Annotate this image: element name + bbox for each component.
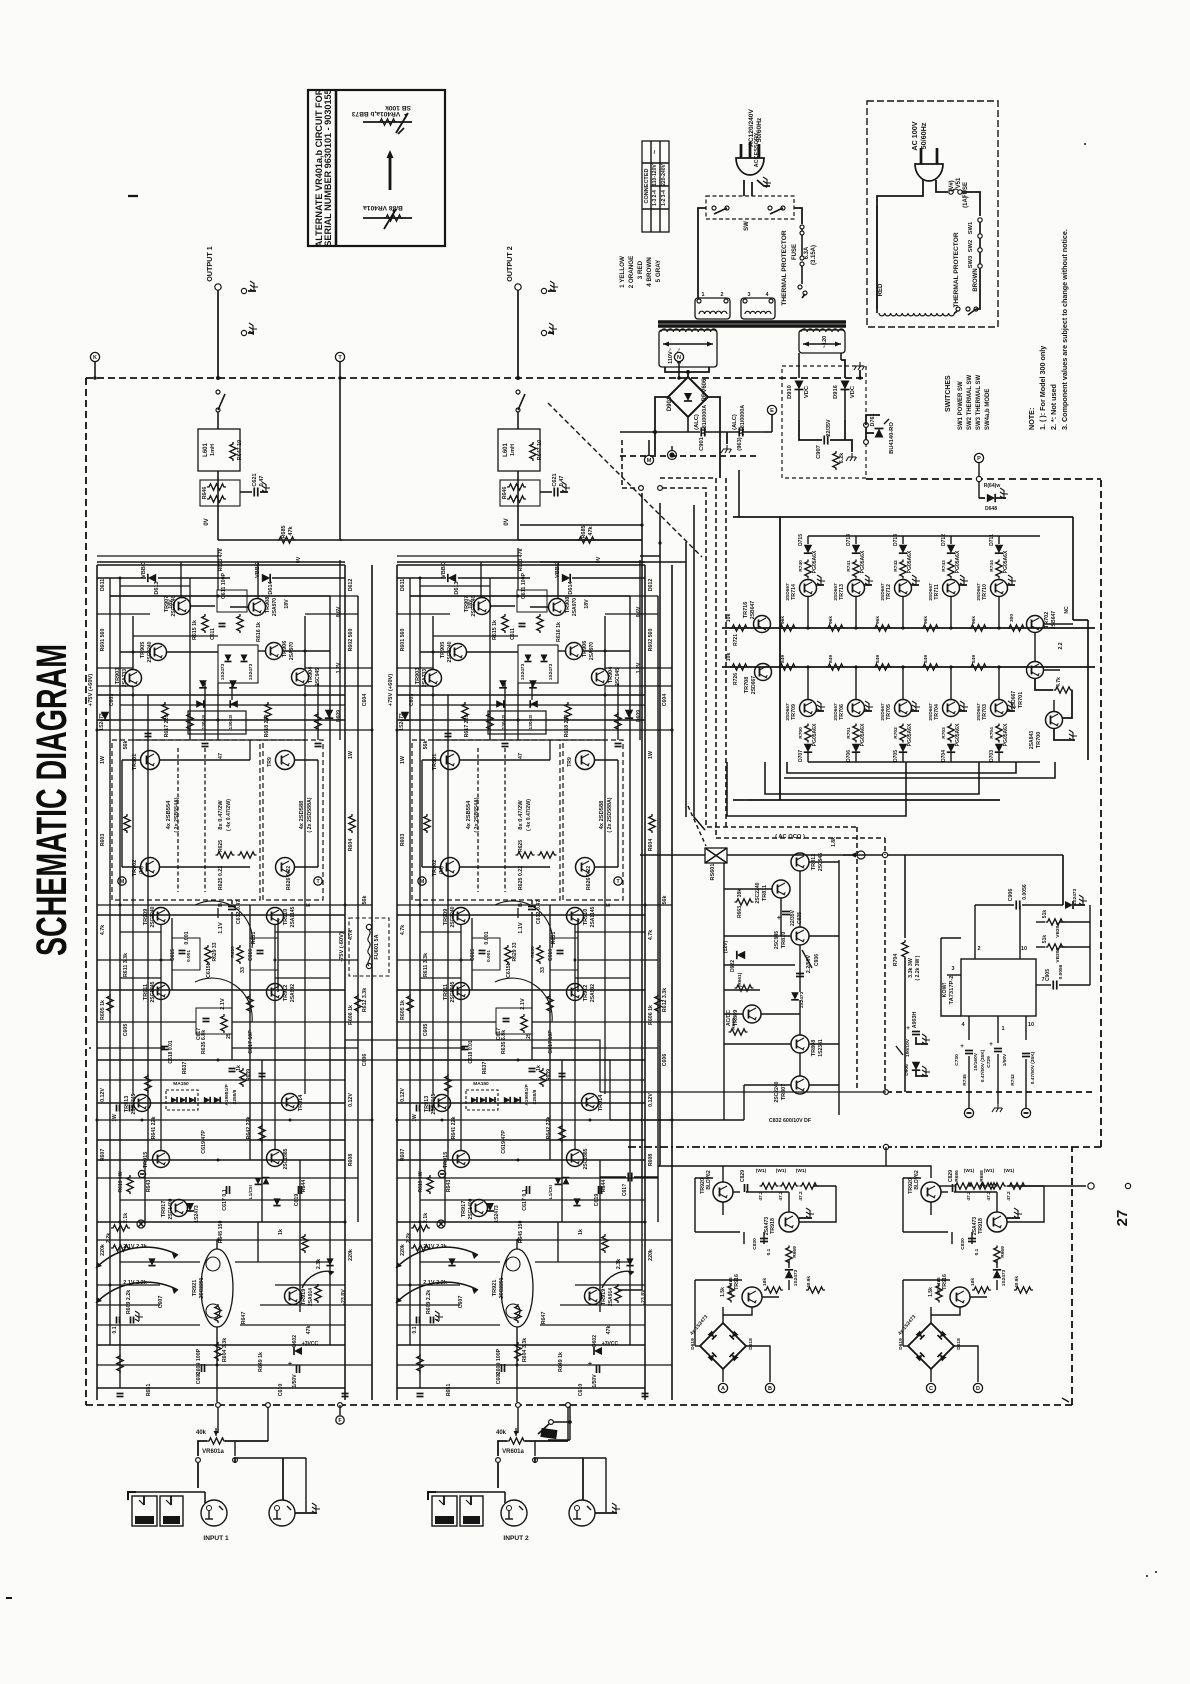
solid rail x642 <box>641 493 643 1177</box>
bias diode box <box>518 645 558 683</box>
svg-text:R704: R704 <box>989 727 995 739</box>
staircase wire 2 <box>765 762 979 794</box>
svg-text:R642 22k: R642 22k <box>546 1117 552 1140</box>
svg-text:FUSE: FUSE <box>963 182 969 198</box>
svg-text:( 4x 0.47/2W): ( 4x 0.47/2W) <box>526 799 532 831</box>
damping network R646 C621 <box>500 480 540 506</box>
resistor R730 on bus <box>778 625 797 631</box>
svg-text:C906: C906 <box>1008 889 1014 902</box>
svg-text:2SC1400: 2SC1400 <box>468 1198 474 1219</box>
svg-text:C619 47P: C619 47P <box>201 1130 207 1154</box>
staircase links lower <box>345 1040 600 1092</box>
diode D705 <box>899 744 907 752</box>
svg-text:R659: R659 <box>731 1018 737 1030</box>
test point minus <box>138 1170 145 1177</box>
svg-text:0.1: 0.1 <box>412 1326 418 1333</box>
diode D916 <box>840 353 842 360</box>
box1 terminal <box>418 877 426 885</box>
svg-text:2SA970: 2SA970 <box>572 598 578 616</box>
svg-text:TR714: TR714 <box>791 584 797 600</box>
svg-text:SW2 THERMAL SW: SW2 THERMAL SW <box>967 374 973 430</box>
transistor TR906b <box>566 643 583 660</box>
svg-text:10k: 10k <box>726 653 732 662</box>
transistor TR911b <box>453 983 470 1000</box>
rca jack 2 <box>569 1500 595 1526</box>
svg-text:C621: C621 <box>252 473 258 486</box>
resistor R734 on bus <box>969 625 988 631</box>
svg-text:1/50V: 1/50V <box>592 1374 598 1388</box>
svg-text:TR905: TR905 <box>140 642 146 659</box>
vertical rails channel <box>396 565 398 1400</box>
bottom resistor R604 <box>515 1342 521 1361</box>
diode TS2473 <box>486 1203 494 1211</box>
relay L601 <box>198 429 240 471</box>
top letter terminals <box>90 352 99 361</box>
diode quad box MA150 <box>466 1090 498 1110</box>
svg-text:TR906: TR906 <box>582 641 588 658</box>
svg-text:96k: 96k <box>780 616 786 624</box>
svg-text:22/35V: 22/35V <box>826 419 832 436</box>
svg-text:R641 22k: R641 22k <box>151 1117 157 1140</box>
svg-text:BLDV62: BLDV62 <box>914 1170 920 1189</box>
svg-text:TR920: TR920 <box>700 1178 706 1194</box>
svg-text:2SD667: 2SD667 <box>928 583 934 601</box>
svg-text:SW1: SW1 <box>968 221 974 234</box>
svg-text:INPUT 1: INPUT 1 <box>203 1535 229 1542</box>
transistor TR921 2SA473 <box>921 1182 941 1202</box>
dark terminal <box>668 451 677 460</box>
wire plug left to transformer <box>877 180 923 206</box>
box1 wires <box>422 759 441 761</box>
svg-text:220k: 220k <box>100 1244 106 1256</box>
svg-text:0.12V: 0.12V <box>100 1088 106 1102</box>
svg-text:0.1: 0.1 <box>112 1326 118 1333</box>
svg-text:( 2.2k 3W ): ( 2.2k 3W ) <box>915 955 921 980</box>
R708 resistor <box>1054 687 1073 693</box>
output box 1 dashed <box>412 740 560 900</box>
svg-text:C730: C730 <box>954 1054 960 1066</box>
row E wires <box>397 989 645 991</box>
svg-text:13043!: 13043! <box>228 714 234 729</box>
wire to bus2 <box>950 667 952 700</box>
thermal switch contact <box>955 310 958 313</box>
meter arc left 2 <box>96 1282 178 1303</box>
headphone jack symbol <box>128 1492 136 1500</box>
bias resistors <box>972 1287 991 1293</box>
diode TS2473 right <box>1065 901 1073 909</box>
svg-text:1.5k: 1.5k <box>720 1287 726 1297</box>
svg-text:A881/0000A: A881/0000A <box>740 405 746 435</box>
svg-text:D609: D609 <box>336 710 342 722</box>
svg-text:51k: 51k <box>1042 935 1048 944</box>
inset box alternate VR401 circuit <box>308 90 445 246</box>
svg-text:BLDV62: BLDV62 <box>706 1170 712 1189</box>
transistor TR916a <box>742 1287 762 1307</box>
svg-text:2.2: 2.2 <box>1058 642 1064 649</box>
diode ZD <box>993 1270 1001 1278</box>
svg-text:VR601a: VR601a <box>202 1449 224 1455</box>
transistor TR701 <box>1027 662 1044 679</box>
svg-text:R649 1k: R649 1k <box>258 1352 264 1372</box>
svg-text:0V: 0V <box>296 556 302 563</box>
transistor TR920 2SA473 <box>713 1182 733 1202</box>
svg-text:BROWN: BROWN <box>973 268 979 291</box>
box1 internal dashed columns <box>177 748 179 892</box>
wire horizontal y455 <box>620 431 660 433</box>
svg-text:4x 2SB554: 4x 2SB554 <box>466 800 472 830</box>
svg-text:10k: 10k <box>726 614 732 623</box>
outer dashed border right lower <box>1071 1147 1073 1405</box>
caps bottom left <box>416 1317 418 1324</box>
bus line 1 <box>722 627 1095 629</box>
terminal A <box>718 1383 727 1392</box>
svg-text:47k: 47k <box>288 525 294 535</box>
transistor TR915a <box>153 1151 170 1168</box>
svg-text:1/50V: 1/50V <box>1002 1053 1008 1066</box>
svg-text:VDC: VDC <box>850 386 856 398</box>
svg-text:849: 849 <box>780 655 786 663</box>
svg-text:MA150: MA150 <box>173 1081 189 1087</box>
svg-text:2SA992: 2SA992 <box>590 984 596 1002</box>
outer dashed border right upper <box>1100 480 1102 1147</box>
wire to bus2 <box>998 667 1000 700</box>
svg-text:TR910: TR910 <box>283 909 289 926</box>
diode bottom mid <box>273 1198 280 1205</box>
svg-text:( 2x 2SB554A): ( 2x 2SB554A) <box>474 797 480 832</box>
svg-text:2SC1845: 2SC1845 <box>450 981 456 1002</box>
svg-text:R635 6.8k: R635 6.8k <box>501 1030 507 1054</box>
extra horizontals <box>120 585 190 587</box>
svg-text:R608: R608 <box>348 1154 354 1167</box>
svg-text:849: 849 <box>971 655 977 663</box>
right unit feed <box>886 1166 931 1178</box>
jack symbol 2 <box>241 330 246 335</box>
output terminal OUTPUT 2 <box>515 284 521 290</box>
box1 terminal <box>118 877 126 885</box>
diode D703 <box>995 744 1003 752</box>
zener R742 <box>833 451 839 470</box>
svg-text:2SA914: 2SA914 <box>608 1288 614 1306</box>
solid rail x739 <box>738 470 740 517</box>
emitter ground <box>864 584 872 586</box>
diode D711 <box>995 545 1003 553</box>
transistor TR706 <box>848 700 865 717</box>
electrolytic C728 <box>1022 1053 1030 1055</box>
svg-text:R607: R607 <box>100 1149 106 1162</box>
svg-text:(W1): (W1) <box>756 1168 767 1174</box>
wire output vertical <box>217 290 219 378</box>
resistor rows mid cluster <box>735 985 754 991</box>
svg-text:0V: 0V <box>204 518 210 525</box>
svg-text:R631: R631 <box>251 932 257 945</box>
svg-text:4.7k: 4.7k <box>400 925 406 935</box>
box2 terminal <box>314 877 322 885</box>
svg-text:R641 22k: R641 22k <box>451 1117 457 1140</box>
svg-text:0.001: 0.001 <box>186 950 192 962</box>
svg-text:1.2V: 1.2V <box>636 662 642 673</box>
resistor R713 on bus2 <box>921 664 940 670</box>
wire y1092 left <box>600 1091 886 1093</box>
svg-text:C611 100P: C611 100P <box>221 572 227 599</box>
svg-text:R644: R644 <box>601 1180 607 1193</box>
svg-text:INPUT 2: INPUT 2 <box>503 1535 529 1542</box>
terminal P right top <box>974 453 983 462</box>
svg-text:R606 1k: R606 1k <box>348 1005 354 1025</box>
transistor TR700 <box>1046 712 1063 729</box>
svg-text:2SD667: 2SD667 <box>1011 691 1017 709</box>
svg-text:R726: R726 <box>733 673 739 685</box>
svg-text:A: A <box>721 1386 725 1392</box>
svg-text:1mH: 1mH <box>510 444 516 456</box>
svg-text:1W: 1W <box>648 751 654 759</box>
svg-text:10/160V: 10/160V <box>973 1052 979 1071</box>
rail dashed second <box>716 478 885 838</box>
svg-text:1S2473: 1S2473 <box>194 1205 200 1223</box>
svg-text:R626 0.22: R626 0.22 <box>286 866 292 890</box>
svg-text:47: 47 <box>218 753 224 759</box>
driver stage rails <box>110 595 330 597</box>
svg-text:25: 25 <box>526 1033 532 1039</box>
svg-text:110V~: 110V~ <box>668 347 674 364</box>
svg-text:(12V): (12V) <box>723 941 729 954</box>
transistor TR709 <box>800 700 817 717</box>
svg-text:0.001: 0.001 <box>184 931 190 944</box>
svg-text:R626 0.22: R626 0.22 <box>586 866 592 890</box>
svg-text:R742: R742 <box>893 560 899 572</box>
svg-text:2SA733: 2SA733 <box>422 669 428 687</box>
svg-text:R647 10: R647 10 <box>237 440 243 460</box>
svg-text:C907: C907 <box>816 445 822 459</box>
svg-text:4x 2SD588: 4x 2SD588 <box>599 800 605 830</box>
svg-text:0.1: 0.1 <box>974 1248 980 1255</box>
svg-text:2SD667: 2SD667 <box>751 676 757 694</box>
svg-text:R629 33: R629 33 <box>212 942 218 961</box>
svg-text:4.7k: 4.7k <box>648 930 654 940</box>
svg-text:( 2x 2SD588A): ( 2x 2SD588A) <box>607 797 613 832</box>
svg-text:TR917: TR917 <box>461 1201 467 1218</box>
wires right cluster <box>1043 623 1073 625</box>
nodes bottom border <box>216 1403 221 1408</box>
svg-text:C610: C610 <box>578 1384 584 1397</box>
svg-text:0.47: 0.47 <box>559 476 565 487</box>
connector block 1 <box>695 298 730 319</box>
svg-text:R(64)w: R(64)w <box>984 483 1001 489</box>
emitter ground <box>959 584 967 586</box>
svg-text:R616 1k: R616 1k <box>556 622 562 642</box>
cap C936 <box>796 973 804 975</box>
svg-text:C609 100P: C609 100P <box>496 1348 502 1375</box>
svg-text:TR919: TR919 <box>301 1289 307 1306</box>
bottom electrolytic C606 <box>596 1365 598 1373</box>
rca jack 2 <box>269 1500 295 1526</box>
dotted route diagonal 2 <box>688 806 706 846</box>
dashed vertical B <box>884 838 886 855</box>
svg-text:B/88 VR401a: B/88 VR401a <box>363 204 403 211</box>
extra small caps <box>445 733 452 735</box>
ground supply <box>845 440 852 452</box>
svg-text:1/50V: 1/50V <box>292 1374 298 1388</box>
svg-text:TR908: TR908 <box>565 597 571 614</box>
svg-text:2SC2291: 2SC2291 <box>199 1277 205 1298</box>
svg-text:51k: 51k <box>1042 910 1048 919</box>
transistor TR917b <box>471 1200 488 1217</box>
svg-text:13043!: 13043! <box>201 714 207 729</box>
svg-text:SW4a,b MODE: SW4a,b MODE <box>985 389 991 430</box>
staircase wire 1 <box>727 762 906 816</box>
svg-text:0.0056: 0.0056 <box>1058 964 1064 979</box>
svg-text:PG05A6X: PG05A6X <box>812 550 818 573</box>
ground ref node <box>437 1220 445 1228</box>
svg-text:96k: 96k <box>923 616 929 624</box>
jack symbol <box>241 288 246 293</box>
svg-text:+: + <box>288 1359 292 1368</box>
svg-text:TA7317P-2: TA7317P-2 <box>949 976 955 1005</box>
ground ref node <box>137 1220 145 1228</box>
svg-text:10: 10 <box>1028 1022 1034 1028</box>
svg-text:1S2473: 1S2473 <box>520 663 526 680</box>
wire to bus1 <box>950 596 952 628</box>
svg-text:40.9k: 40.9k <box>806 1276 812 1288</box>
bias resistors <box>764 1287 783 1293</box>
svg-text:(W1): (W1) <box>1004 1168 1015 1174</box>
fuse box FU601 <box>349 918 389 976</box>
svg-text:RS601: RS601 <box>710 864 716 881</box>
svg-text:1S2473: 1S2473 <box>1001 1269 1007 1286</box>
svg-text:TR921: TR921 <box>192 1280 198 1297</box>
svg-text:+: + <box>588 1359 592 1368</box>
svg-text:D: D <box>976 1386 980 1392</box>
svg-text:D901: D901 <box>667 396 673 411</box>
volume control VR601 <box>217 1408 219 1433</box>
node <box>686 370 690 374</box>
svg-text:CONNECTED: CONNECTED <box>644 169 650 204</box>
svg-text:C829: C829 <box>740 1170 746 1182</box>
svg-text:220k: 220k <box>648 1249 654 1261</box>
svg-text:TR709: TR709 <box>791 704 797 720</box>
box1 emitter resistors <box>216 852 235 858</box>
svg-text:C830: C830 <box>960 1238 966 1250</box>
svg-text:2SC2240: 2SC2240 <box>450 906 456 927</box>
svg-text:C604: C604 <box>362 694 368 707</box>
cap C901 <box>687 417 689 432</box>
svg-text:R651: R651 <box>446 1384 452 1397</box>
meter arc 1.1V <box>495 901 553 948</box>
damping network R646 C621 <box>200 480 240 506</box>
wire relay row <box>640 854 705 856</box>
electrolytic C730 <box>965 1050 973 1052</box>
ground right <box>799 1217 812 1219</box>
svg-text:D704: D704 <box>941 750 947 762</box>
wire fuse to right rail <box>962 192 980 216</box>
svg-text:R607: R607 <box>400 1149 406 1162</box>
output terminal OUTPUT 1 <box>215 284 221 290</box>
svg-text:96k: 96k <box>828 616 834 624</box>
svg-text:D906: D906 <box>904 1064 910 1076</box>
transistor TR903a <box>125 670 142 687</box>
svg-text:4.7k: 4.7k <box>1056 677 1062 687</box>
svg-text:2SA992: 2SA992 <box>290 984 296 1002</box>
diode ZD <box>785 1270 793 1278</box>
mid network row E <box>196 1008 232 1034</box>
node on border <box>216 376 220 380</box>
transistor TR914a <box>282 1094 299 1111</box>
terminal arrow mid <box>857 851 865 859</box>
transistor TR912b <box>567 984 584 1001</box>
C616 R630 <box>250 938 278 970</box>
transistor TR915b <box>453 1151 470 1168</box>
bottom cap C602 <box>501 1364 503 1372</box>
cap C612 <box>228 906 236 908</box>
svg-text:R647 10: R647 10 <box>537 440 543 460</box>
svg-text:AC 100V: AC 100V <box>910 121 919 150</box>
svg-text:-23.8V: -23.8V <box>641 1289 647 1305</box>
resistor R746 <box>1046 919 1065 925</box>
svg-text:2.1V 2.2k: 2.1V 2.2k <box>423 1244 448 1250</box>
bottom electrolytic C606 <box>296 1365 298 1373</box>
resistor R710 on bus2 <box>778 664 797 670</box>
svg-text:R612 3.3k: R612 3.3k <box>662 988 668 1012</box>
IC frame lead <box>941 938 961 1016</box>
IC TA7317P <box>961 959 1036 1016</box>
primary coil bottom <box>879 313 954 316</box>
svg-text:TR708: TR708 <box>744 677 750 694</box>
bridge wires <box>930 1307 932 1323</box>
row H wires <box>397 1221 645 1223</box>
wire y1120 <box>610 1119 744 1121</box>
jack wires <box>282 1458 284 1500</box>
svg-text:+: + <box>960 1043 964 1050</box>
svg-text:R688: R688 <box>979 1170 985 1182</box>
svg-text:18V: 18V <box>168 599 174 609</box>
svg-text:2.3k: 2.3k <box>616 1259 622 1269</box>
resistor R669 <box>786 1246 792 1265</box>
svg-text:1S2473: 1S2473 <box>399 713 405 731</box>
svg-text:R701: R701 <box>846 727 852 739</box>
svg-text:R647: R647 <box>241 1312 247 1325</box>
transistor TR904a <box>292 669 309 686</box>
rail x622 dashed <box>622 440 640 488</box>
switch box SW dashed <box>706 196 794 219</box>
svg-text:R609 2.2k: R609 2.2k <box>126 1290 132 1314</box>
svg-text:C905: C905 <box>1045 969 1051 981</box>
wire to bus1 <box>998 596 1000 628</box>
svg-text:C611: C611 <box>510 628 516 640</box>
unit left frame <box>902 1280 904 1346</box>
svg-text:~: ~ <box>650 150 659 154</box>
svg-text:R663: R663 <box>737 906 743 918</box>
collector resistors row <box>968 1183 987 1189</box>
diode D706 <box>852 744 860 752</box>
protection frame verticals <box>779 517 781 800</box>
secondary winding block right <box>799 330 845 353</box>
unit frame wires <box>902 1178 904 1232</box>
vbe diode left <box>448 574 456 582</box>
plug ground <box>757 180 770 186</box>
svg-text:D614: D614 <box>268 580 274 594</box>
svg-text:PG05A6X: PG05A6X <box>1003 723 1009 746</box>
svg-text:R702: R702 <box>893 727 899 739</box>
svg-text:B: B <box>518 903 524 907</box>
svg-text:PG05A6X: PG05A6X <box>812 723 818 746</box>
unit left frame <box>694 1280 696 1346</box>
svg-text:C606: C606 <box>662 1054 668 1067</box>
wire to bus1 <box>902 596 904 628</box>
svg-text:1S2473: 1S2473 <box>99 713 105 731</box>
svg-text:2SA1145: 2SA1145 <box>290 906 296 927</box>
caps row G <box>226 1186 228 1194</box>
svg-text:D611: D611 <box>400 579 406 591</box>
row F wires <box>97 1059 345 1061</box>
